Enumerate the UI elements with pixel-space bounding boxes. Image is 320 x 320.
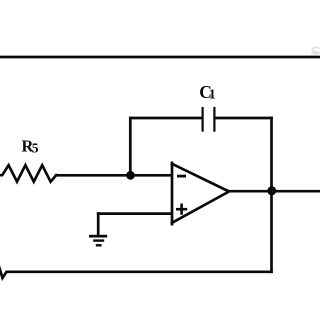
svg-text:R5: R5 xyxy=(22,136,39,155)
ground bars xyxy=(89,235,107,247)
wire: top horizontal bus xyxy=(0,56,320,59)
wire: C1 right lead xyxy=(216,117,272,120)
label fragment (faint cropped glyph, top-right) xyxy=(312,47,320,54)
capacitor C1 plates xyxy=(203,108,215,131)
wire: R5 output to inverting input xyxy=(56,174,171,177)
wire: bottom feedback with cut-off zigzag at left edge xyxy=(0,267,272,279)
svg-text:C1: C1 xyxy=(199,82,215,102)
wire: vertical from node A up to C1 branch xyxy=(129,118,132,175)
wire: non-inverting input from ground xyxy=(98,212,171,215)
wire: right vertical feedback xyxy=(270,118,273,272)
op-amp U1 triangle xyxy=(171,163,174,224)
wire: C1 left lead xyxy=(130,117,201,120)
op-amp minus symbol xyxy=(177,175,186,178)
op-amp plus symbol xyxy=(176,204,187,215)
node A junction dot xyxy=(126,171,135,180)
resistor R5 xyxy=(0,165,56,182)
node B junction dot (output) xyxy=(267,186,276,195)
wire: op-amp output xyxy=(229,190,320,193)
ground stem xyxy=(97,214,100,235)
